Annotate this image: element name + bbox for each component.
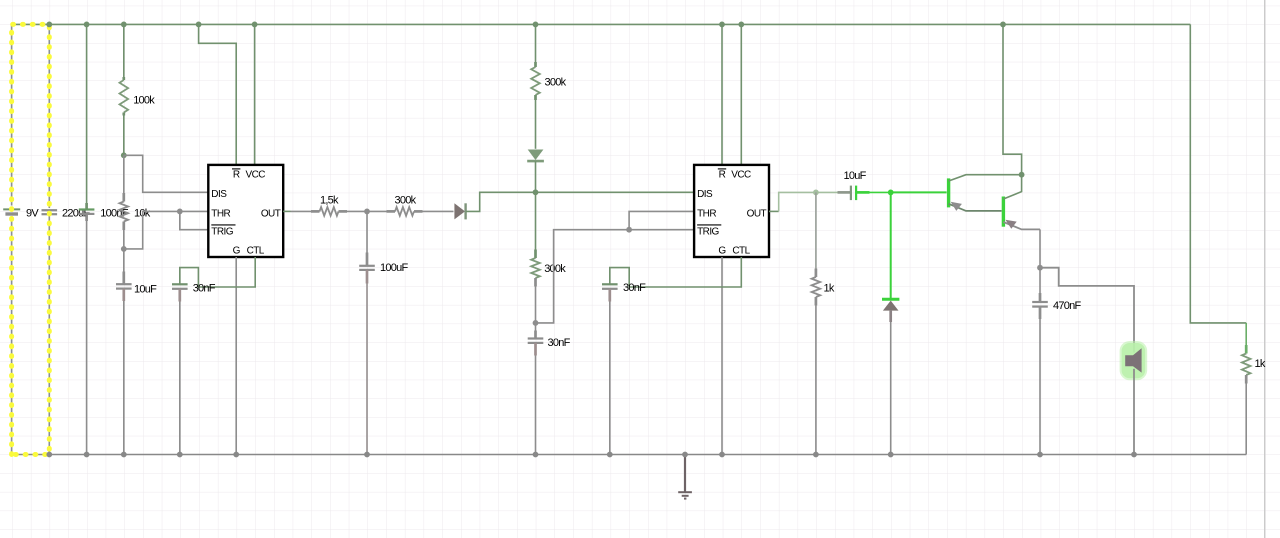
transistor Q1 [947, 178, 950, 207]
node U1 VCC junction [252, 22, 258, 28]
wire U1.TRIG link [180, 211, 209, 229]
node OUT2 junction [813, 190, 819, 196]
wire C2 bottom lead [85, 214, 88, 221]
node C6 ground junction [533, 452, 539, 458]
svg-text:30nF: 30nF [548, 337, 571, 349]
wire U2.CTL path [610, 257, 742, 287]
node C9 ground junction [1037, 452, 1043, 458]
wire U2.THR link [629, 211, 694, 229]
svg-text:DIS: DIS [697, 189, 713, 200]
wire R1 top lead [123, 24, 125, 77]
wire U2.TRIG to R6-C6 node [536, 230, 695, 323]
node C5 ground junction [364, 452, 370, 458]
svg-text:1k: 1k [824, 282, 835, 294]
capacitor C1 220uF [42, 209, 58, 211]
wire ground stub [684, 455, 686, 492]
wire Q2 emitter drop [1039, 229, 1041, 267]
resistor R1 100k [120, 80, 129, 113]
wire C6 top lead [535, 323, 537, 331]
wire U1.G to ground rail [235, 257, 237, 455]
node THR1 junction [121, 246, 127, 252]
node Q1-Q2 collector junction [1019, 172, 1025, 178]
node U2.G ground junction [719, 452, 725, 458]
wire U2.OUT jog [779, 192, 816, 211]
wire U2.VCC feed [740, 24, 742, 165]
wire C4 bottom lead [178, 289, 181, 302]
wire C8 right lead [856, 191, 869, 194]
wire R8 top lead [1245, 323, 1247, 345]
transistor Q2 [1002, 197, 1005, 227]
node DIS2 junction [533, 189, 539, 195]
node U2 reset junction [719, 22, 725, 28]
wire R7 bottom lead [815, 297, 818, 306]
capacitor C9 470nF [1032, 301, 1048, 303]
wire C8 left lead [816, 191, 838, 193]
node C2 supply junction [84, 22, 90, 28]
op-amp U1 555 body [208, 165, 283, 257]
node C7 ground junction [607, 452, 613, 458]
wire U2.R feed [721, 24, 723, 165]
svg-text:DIS: DIS [211, 189, 227, 200]
node U1 reset feed junction [196, 22, 202, 28]
resistor R6 300k [531, 258, 540, 278]
wire R8 feed [1190, 24, 1246, 323]
capacitor C4 30nF [172, 283, 188, 285]
node R5 supply junction [533, 22, 539, 28]
svg-text:R: R [233, 169, 240, 180]
wire collector supply feed [1003, 24, 1022, 174]
wire C3 top lead [123, 249, 125, 272]
node C8-Q1 junction [888, 190, 894, 196]
node C1 ground junction [46, 452, 52, 458]
svg-text:470nF: 470nF [1053, 300, 1081, 312]
capacitor C5 100uF [359, 265, 375, 267]
svg-text:300k: 300k [395, 195, 417, 207]
node R1 supply junction [121, 22, 127, 28]
svg-text:CTL: CTL [247, 246, 265, 257]
wire C5 bottom lead [366, 270, 369, 284]
resistor R3 1,5k [320, 207, 339, 216]
node U1.THR junction [177, 209, 183, 215]
node U2 VCC junction [738, 22, 744, 28]
wire U1.CTL path [180, 257, 255, 287]
wire R1 bottom lead [122, 113, 125, 116]
capacitor C6 30nF [528, 337, 544, 339]
battery B1 9V [3, 208, 20, 210]
svg-text:300k: 300k [544, 263, 566, 275]
wire R2 bottom lead [122, 222, 125, 231]
wire C5 top lead [366, 211, 368, 252]
svg-text:100uF: 100uF [380, 262, 408, 274]
wire Q1 base lead [891, 191, 947, 193]
wire far-right vertical [1264, 0, 1266, 538]
svg-text:30nF: 30nF [623, 282, 646, 294]
svg-text:OUT: OUT [261, 208, 281, 219]
svg-text:300k: 300k [545, 76, 567, 88]
resistor R4 300k [395, 207, 414, 216]
svg-text:CTL: CTL [732, 246, 750, 257]
wire R8 bottom lead [1245, 375, 1248, 384]
svg-text:OUT: OUT [747, 208, 767, 219]
svg-text:G: G [718, 246, 726, 257]
capacitor C7 30nF [602, 283, 618, 285]
wire THR1 to U1.THR [124, 211, 180, 249]
wire R3 right lead [339, 210, 348, 213]
wire speaker feed [1040, 268, 1134, 353]
wire R5 bottom lead [534, 95, 537, 100]
speaker highlight [1120, 341, 1148, 380]
diode D3 [882, 298, 899, 301]
op-amp U2 555 body [694, 165, 769, 257]
node DIS1 junction [121, 152, 127, 158]
wire DIS2 to U2.DIS [536, 191, 695, 193]
wire R2 top lead [123, 155, 125, 193]
wire speaker bottom lead [1133, 369, 1135, 455]
wire R5 top lead [535, 24, 537, 62]
node R3-R4 junction [364, 209, 370, 215]
wire C9 bottom lead [1039, 307, 1042, 319]
svg-text:VCC: VCC [731, 169, 751, 180]
svg-text:9V: 9V [26, 207, 39, 219]
svg-text:1k: 1k [1255, 358, 1266, 370]
svg-text:THR: THR [697, 208, 716, 219]
selection highlight battery loop [12, 24, 50, 454]
wire C6 bottom lead [534, 343, 537, 356]
node D3 ground junction [888, 452, 894, 458]
resistor R7 1k [812, 277, 821, 297]
wire R6 top lead [535, 192, 537, 249]
wire U1.OUT stub [283, 210, 290, 212]
wire R4 left lead [367, 210, 387, 212]
resistor R8 1k [1242, 354, 1251, 376]
ground [678, 491, 692, 493]
diode D1 [454, 203, 465, 219]
node U1.G ground junction [233, 452, 239, 458]
wire C2 top lead [86, 24, 88, 207]
wire U1.VCC feed [254, 24, 256, 165]
wire bottom ground rail [12, 454, 1247, 456]
wire D3 anode lead [889, 311, 892, 322]
diode D2 [528, 150, 544, 161]
wire R7 top lead [815, 192, 817, 268]
node C2 ground junction [84, 452, 90, 458]
svg-text:TRIG: TRIG [211, 227, 233, 238]
wire battery bottom lead [11, 216, 13, 455]
svg-text:TRIG: TRIG [697, 227, 719, 238]
svg-text:G: G [233, 246, 241, 257]
svg-text:10uF: 10uF [844, 170, 867, 182]
wire C3 bottom lead [122, 289, 125, 301]
wire battery top lead [11, 24, 13, 205]
wire D3 cathode lead [890, 192, 892, 298]
node ground rail junction [682, 452, 688, 458]
wire U1.THR pin [180, 210, 209, 212]
capacitor C8 10uF [850, 186, 852, 201]
wire C1 top lead [48, 24, 50, 208]
node C4 ground junction [177, 452, 183, 458]
node R6-C6 junction [533, 320, 539, 326]
resistor R2 10k [120, 202, 129, 222]
wire D1 to DIS2 row [466, 192, 536, 211]
svg-text:100k: 100k [133, 94, 155, 106]
wire U1.R feed [199, 24, 237, 165]
node C3 ground junction [121, 452, 127, 458]
wire U2.G to ground rail [721, 257, 723, 455]
wire D2 bottom lead [535, 161, 537, 192]
node U2.TRIG junction [626, 227, 632, 233]
svg-text:30nF: 30nF [193, 283, 216, 295]
capacitor C2 100nF [79, 208, 95, 210]
wire C1 bottom lead [48, 216, 50, 455]
node R7 ground junction [813, 452, 819, 458]
svg-text:1,5k: 1,5k [320, 195, 339, 207]
resistor R5 300k [531, 67, 540, 95]
node C9 junction [1037, 265, 1043, 271]
wire R6 bottom lead [534, 278, 537, 287]
node supply tap junction [1000, 22, 1006, 28]
node speaker ground junction [1131, 452, 1137, 458]
svg-text:VCC: VCC [245, 169, 265, 180]
wire C9 top lead [1039, 268, 1041, 293]
node C1 supply junction [46, 22, 52, 28]
wire C7 bottom lead [608, 289, 611, 302]
svg-text:10uF: 10uF [134, 283, 157, 295]
capacitor C3 10uF [116, 283, 132, 285]
svg-text:THR: THR [211, 208, 230, 219]
wire R4 right lead [414, 210, 423, 213]
speaker SPK [1125, 349, 1141, 373]
wire top supply rail [12, 23, 1191, 25]
svg-text:R: R [719, 169, 726, 180]
wire DIS1 to U1.DIS [124, 155, 209, 192]
wire U2.OUT stub [769, 210, 779, 212]
